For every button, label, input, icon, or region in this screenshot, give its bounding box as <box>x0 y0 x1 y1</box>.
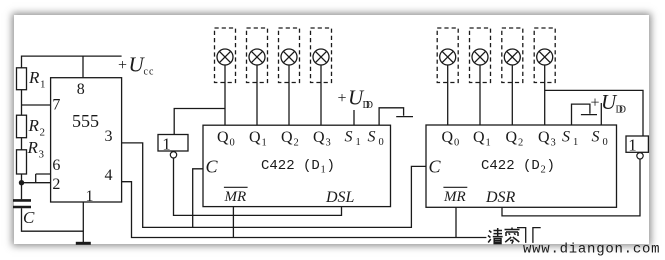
wire gate U2 input <box>174 109 225 135</box>
svg-text:2: 2 <box>40 127 46 139</box>
svg-text:1: 1 <box>573 137 578 148</box>
lamp HL3 <box>279 28 300 125</box>
svg-text:C422 (D: C422 (D <box>261 158 320 174</box>
D2 MR label <box>443 187 467 205</box>
wire R2-R3 <box>21 138 23 150</box>
svg-text:Q: Q <box>281 129 293 146</box>
wire pin2 stub <box>22 182 51 184</box>
svg-text:Q: Q <box>313 129 325 146</box>
svg-text:2: 2 <box>541 165 546 176</box>
wire cap to bottom rail <box>22 208 84 231</box>
wire MR-D2 riser <box>455 207 457 237</box>
svg-text:Q: Q <box>473 129 485 146</box>
svg-text:R: R <box>28 116 40 135</box>
node junction dot <box>19 180 24 185</box>
D1 pin labels Q0-Q3 S1 S0 <box>217 129 384 149</box>
svg-text:0: 0 <box>603 137 608 148</box>
svg-text:7: 7 <box>52 97 60 114</box>
resistor R2 <box>17 115 27 138</box>
wire pin7 stub <box>22 104 51 106</box>
svg-text:+: + <box>338 90 347 107</box>
svg-text:S: S <box>368 129 376 146</box>
svg-text:1: 1 <box>321 165 326 176</box>
svg-text:6: 6 <box>52 157 60 174</box>
svg-text:3: 3 <box>326 138 331 149</box>
wire S0-D2 to UDD <box>600 103 602 125</box>
svg-text:Q: Q <box>538 129 550 146</box>
D2 pin labels <box>442 129 608 149</box>
register D2 box <box>426 125 617 207</box>
switch S1-D2 <box>572 104 598 125</box>
svg-text:0: 0 <box>454 138 459 149</box>
svg-text:1: 1 <box>162 135 171 154</box>
wire R3-node <box>21 174 23 199</box>
wire MR-D1 riser <box>232 207 234 238</box>
svg-text:DD: DD <box>363 100 374 111</box>
svg-text:1: 1 <box>628 136 637 155</box>
gate U3 box <box>626 136 648 152</box>
svg-text:cc: cc <box>144 67 155 78</box>
svg-text:C: C <box>206 157 219 177</box>
svg-text:C: C <box>429 157 442 177</box>
wire Q3-D2 tap to gate U3 <box>545 90 643 136</box>
wire gate U2 output to DSL <box>174 158 342 215</box>
lamp HL5 <box>437 28 458 125</box>
svg-text:Q: Q <box>217 129 229 146</box>
wire R1-R2 <box>21 90 23 116</box>
wire C-D1 branch <box>193 169 203 228</box>
lamp HL4 <box>311 28 332 125</box>
D1 MR label <box>224 187 248 205</box>
wire pin1 riser <box>82 202 84 243</box>
svg-text:8: 8 <box>77 81 85 98</box>
svg-text:R: R <box>28 68 40 87</box>
svg-text:S: S <box>562 129 570 146</box>
svg-text:S: S <box>345 129 353 146</box>
gate U3 bubble <box>637 153 643 159</box>
svg-text:DSR: DSR <box>485 189 516 206</box>
svg-text:Q: Q <box>442 129 454 146</box>
svg-text:555: 555 <box>72 111 99 131</box>
svg-text:Q: Q <box>506 129 518 146</box>
svg-text:MR: MR <box>443 189 466 205</box>
label C422 (D2) <box>481 158 555 176</box>
svg-text:S: S <box>592 129 600 146</box>
svg-text:1: 1 <box>356 137 361 148</box>
wire pin4 clear line <box>122 182 487 238</box>
svg-text:): ) <box>327 158 335 174</box>
svg-text:1: 1 <box>40 79 46 91</box>
resistor R1 <box>17 68 27 90</box>
svg-text:0: 0 <box>230 138 235 149</box>
svg-text:3: 3 <box>39 149 45 161</box>
ground <box>76 242 91 245</box>
svg-text:DD: DD <box>616 105 627 116</box>
label +UDD D2 <box>591 90 627 116</box>
svg-text:2: 2 <box>52 176 60 193</box>
label R2 <box>28 116 46 139</box>
wire pin6 stub <box>36 174 51 183</box>
label C422 (D1) <box>261 158 335 176</box>
wire pin3 clock line <box>122 143 426 228</box>
svg-text:MR: MR <box>224 189 247 205</box>
lamp HL7 <box>502 28 523 125</box>
switch S0-D1 <box>379 108 413 125</box>
gate U2 bubble <box>170 152 176 158</box>
svg-text:2: 2 <box>294 138 299 149</box>
resistor R3 <box>17 150 27 174</box>
label +Ucc <box>118 53 154 78</box>
lamp HL8 <box>534 28 555 125</box>
register D1 box <box>203 125 391 206</box>
gate U2 box <box>158 135 188 152</box>
switch 清零 button <box>517 228 541 243</box>
svg-text:3: 3 <box>551 138 556 149</box>
svg-text:+: + <box>591 95 600 112</box>
wire +Ucc rail <box>22 56 122 68</box>
lamp HL2 <box>247 28 268 125</box>
svg-text:Q: Q <box>249 129 261 146</box>
wire pin8 riser <box>82 56 84 78</box>
svg-text:R: R <box>27 138 39 157</box>
lamp HL6 <box>470 28 491 125</box>
svg-text:C422 (D: C422 (D <box>481 158 540 174</box>
svg-text:): ) <box>547 158 555 174</box>
svg-text:3: 3 <box>105 128 113 145</box>
wire S1-D1 to UDD <box>353 110 355 125</box>
svg-text:1: 1 <box>86 188 94 205</box>
op 555 U1 <box>51 78 122 202</box>
svg-text:1: 1 <box>486 138 491 149</box>
svg-text:+: + <box>118 57 127 74</box>
svg-text:C: C <box>23 208 35 227</box>
label 清零 <box>488 228 503 244</box>
svg-text:1: 1 <box>262 138 267 149</box>
lamp HL1 <box>215 28 236 125</box>
label +UDD D1 <box>338 86 374 112</box>
svg-text:4: 4 <box>105 167 113 184</box>
label R3 <box>27 138 45 161</box>
svg-text:2: 2 <box>518 138 523 149</box>
label R1 <box>28 68 46 91</box>
wire gate U3 output to DSR <box>502 159 640 216</box>
svg-text:DSL: DSL <box>325 189 355 206</box>
svg-text:0: 0 <box>379 137 384 148</box>
capacitor C <box>13 199 31 202</box>
svg-text:www.diangon.com: www.diangon.com <box>523 242 660 258</box>
